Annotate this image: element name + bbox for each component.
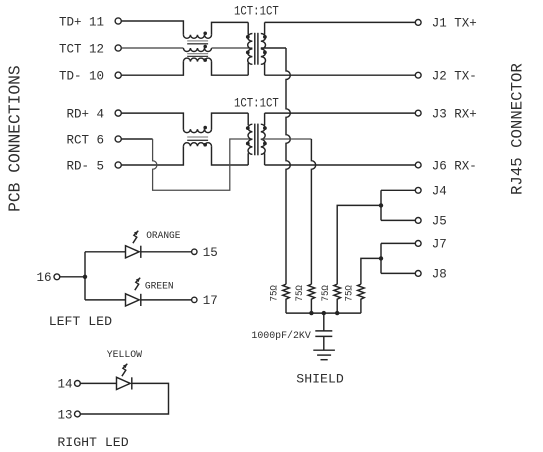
transformer T1 polarity dots [246,35,267,54]
wire J7/J8 to R4 [361,258,381,284]
svg-text:TCT 12: TCT 12 [59,42,104,56]
svg-text:RJ45 CONNECTOR: RJ45 CONNECTOR [509,63,527,195]
ground (SHIELD) [313,350,335,360]
wire T2 secondary center tap [261,138,312,140]
pin 17 [192,294,218,308]
wire ground rail [286,312,361,314]
wire TD- to choke [121,62,183,76]
wire J5 [381,219,415,221]
svg-text:1000pF/2KV: 1000pF/2KV [251,330,311,342]
choke T1 winding C (TD-) [183,58,211,62]
resistor 75ohm #3 [334,284,341,313]
choke T2 core [187,137,208,140]
svg-text:1CT:1CT: 1CT:1CT [234,4,279,18]
choke T2 winding A (RD+) [183,129,211,133]
dot winding A [203,32,207,36]
pin J2 TX- [415,70,477,84]
junction rail R3 [335,311,339,315]
svg-text:ORANGE: ORANGE [146,230,180,242]
svg-text:RCT 6: RCT 6 [66,133,104,147]
svg-text:75Ω: 75Ω [320,285,332,301]
svg-text:1CT:1CT: 1CT:1CT [234,96,279,110]
wire T2 center tap down to R2 (with hop) [311,139,315,284]
pin TCT 12 [59,42,121,56]
svg-text:J1 TX+: J1 TX+ [432,17,477,31]
wire choke B to transformer bottom [212,146,249,165]
svg-text:J2 TX-: J2 TX- [432,70,477,84]
wire T1 secondary top to J1 [265,21,416,23]
svg-text:GREEN: GREEN [145,280,174,292]
choke T1 winding A (TD+) [183,35,211,39]
wire J4/J5 to R3 [337,205,381,284]
svg-text:J4: J4 [432,185,447,199]
svg-text:J8: J8 [432,268,447,282]
pin 14 [57,378,80,392]
svg-text:RIGHT LED: RIGHT LED [57,435,128,450]
svg-text:75Ω: 75Ω [269,285,281,301]
dot T2 winding B [203,143,207,147]
LED orange (D1) [126,246,140,258]
transformer T2 polarity dots [246,126,267,145]
svg-text:15: 15 [203,246,218,260]
junction J7/J8 [379,256,383,260]
svg-text:J3 RX+: J3 RX+ [432,107,477,121]
choke T2 winding B (RD-) [183,143,211,147]
yellow LED light arrow [122,364,127,376]
svg-text:16: 16 [36,271,51,285]
pin 16 [36,271,59,285]
junction LED branch [83,275,87,279]
wire green LED to pin17 [141,299,192,301]
svg-text:75Ω: 75Ω [344,285,356,301]
wire T2 secondary top to J3 [265,112,416,114]
transformer T1 core [255,33,258,65]
wire RD- to choke [121,146,183,165]
svg-text:RD+ 4: RD+ 4 [66,107,104,121]
transformer T2 core [255,124,258,156]
wire choke A to transformer top [212,113,249,129]
wire RCT to transformer center tap (with hop) [153,139,253,190]
transformer T2 secondary winding [261,113,265,165]
wire J7-J8 bracket [380,243,382,273]
svg-text:RD- 5: RD- 5 [66,159,104,173]
svg-text:PCB CONNECTIONS: PCB CONNECTIONS [6,65,25,212]
svg-text:LEFT LED: LEFT LED [49,314,112,329]
wire TD+ to choke [121,21,183,35]
wire T1 secondary bottom to J2 [265,74,416,76]
wire to green LED [85,299,126,301]
wire TCT to choke [121,47,183,49]
junction J4/J5 [379,203,383,207]
resistor 75ohm #4 [358,284,365,313]
resistor 75ohm #1 [283,284,290,313]
choke T1 core [187,41,208,44]
wire orange LED to pin15 [141,251,192,253]
wire J4-J5 bracket [380,190,382,220]
transformer T2 primary winding [248,113,252,165]
junction rail R2 [309,311,313,315]
wire J4 [381,189,415,191]
green LED light arrow [135,278,140,290]
pin J8 [415,268,447,282]
wire LED branch vertical [84,252,86,300]
wire choke C to transformer bottom [212,62,249,76]
pin TD+ 11 [59,15,121,29]
svg-text:75Ω: 75Ω [294,285,306,301]
choke T1 core 2 [187,54,208,57]
transformer T1 secondary winding [261,22,266,75]
transformer T1 primary winding [248,22,253,75]
pin J6 RX- [415,159,477,173]
wire to orange LED [85,251,126,253]
dot T2 winding A [203,126,207,130]
pin RCT 6 [66,133,121,147]
svg-text:17: 17 [203,294,218,308]
pin 13 [57,408,80,422]
capacitor 1000pF/2KV [315,313,332,350]
svg-text:YELLOW: YELLOW [107,349,143,361]
pin RD+ 4 [66,107,121,121]
wire J7 [381,242,415,244]
svg-text:J5: J5 [432,215,447,229]
pin J4 [415,185,447,199]
svg-text:J6 RX-: J6 RX- [432,159,477,173]
svg-text:SHIELD: SHIELD [296,372,344,387]
wire RCT stub [121,138,152,140]
dot winding B [203,45,207,49]
pin 15 [192,246,218,260]
wire choke A to transformer top [212,22,249,34]
pin RD- 5 [66,159,121,173]
pin J7 [415,238,447,252]
wire pin14 to yellow LED [80,382,116,384]
svg-text:14: 14 [57,378,72,392]
wire T2 secondary bottom to J6 [265,164,416,166]
wire T1 center tap down to R1 (with hops) [286,48,290,284]
wire RD+ to choke [121,113,183,129]
wire yellow LED to pin13 [80,383,168,414]
pin J3 RX+ [415,107,477,121]
wire choke B to transformer center tap [212,47,253,49]
resistor 75ohm #2 [308,284,315,313]
junction rail cap [322,311,326,315]
svg-text:J7: J7 [432,238,447,252]
wire pin16 to branch [60,276,85,278]
wire T1 secondary center tap [261,47,286,49]
LED green (D2) [126,294,140,306]
pin J1 TX+ [415,17,477,31]
pin J5 [415,215,447,229]
svg-text:TD- 10: TD- 10 [59,70,104,84]
orange LED light arrow [133,231,138,243]
dot winding C [203,58,207,62]
wire J8 [381,272,415,274]
choke T1 winding B (TCT) [183,48,211,52]
LED yellow (D3) [117,377,131,389]
svg-text:13: 13 [57,408,72,422]
pin TD- 10 [59,70,121,84]
svg-text:TD+ 11: TD+ 11 [59,15,104,29]
